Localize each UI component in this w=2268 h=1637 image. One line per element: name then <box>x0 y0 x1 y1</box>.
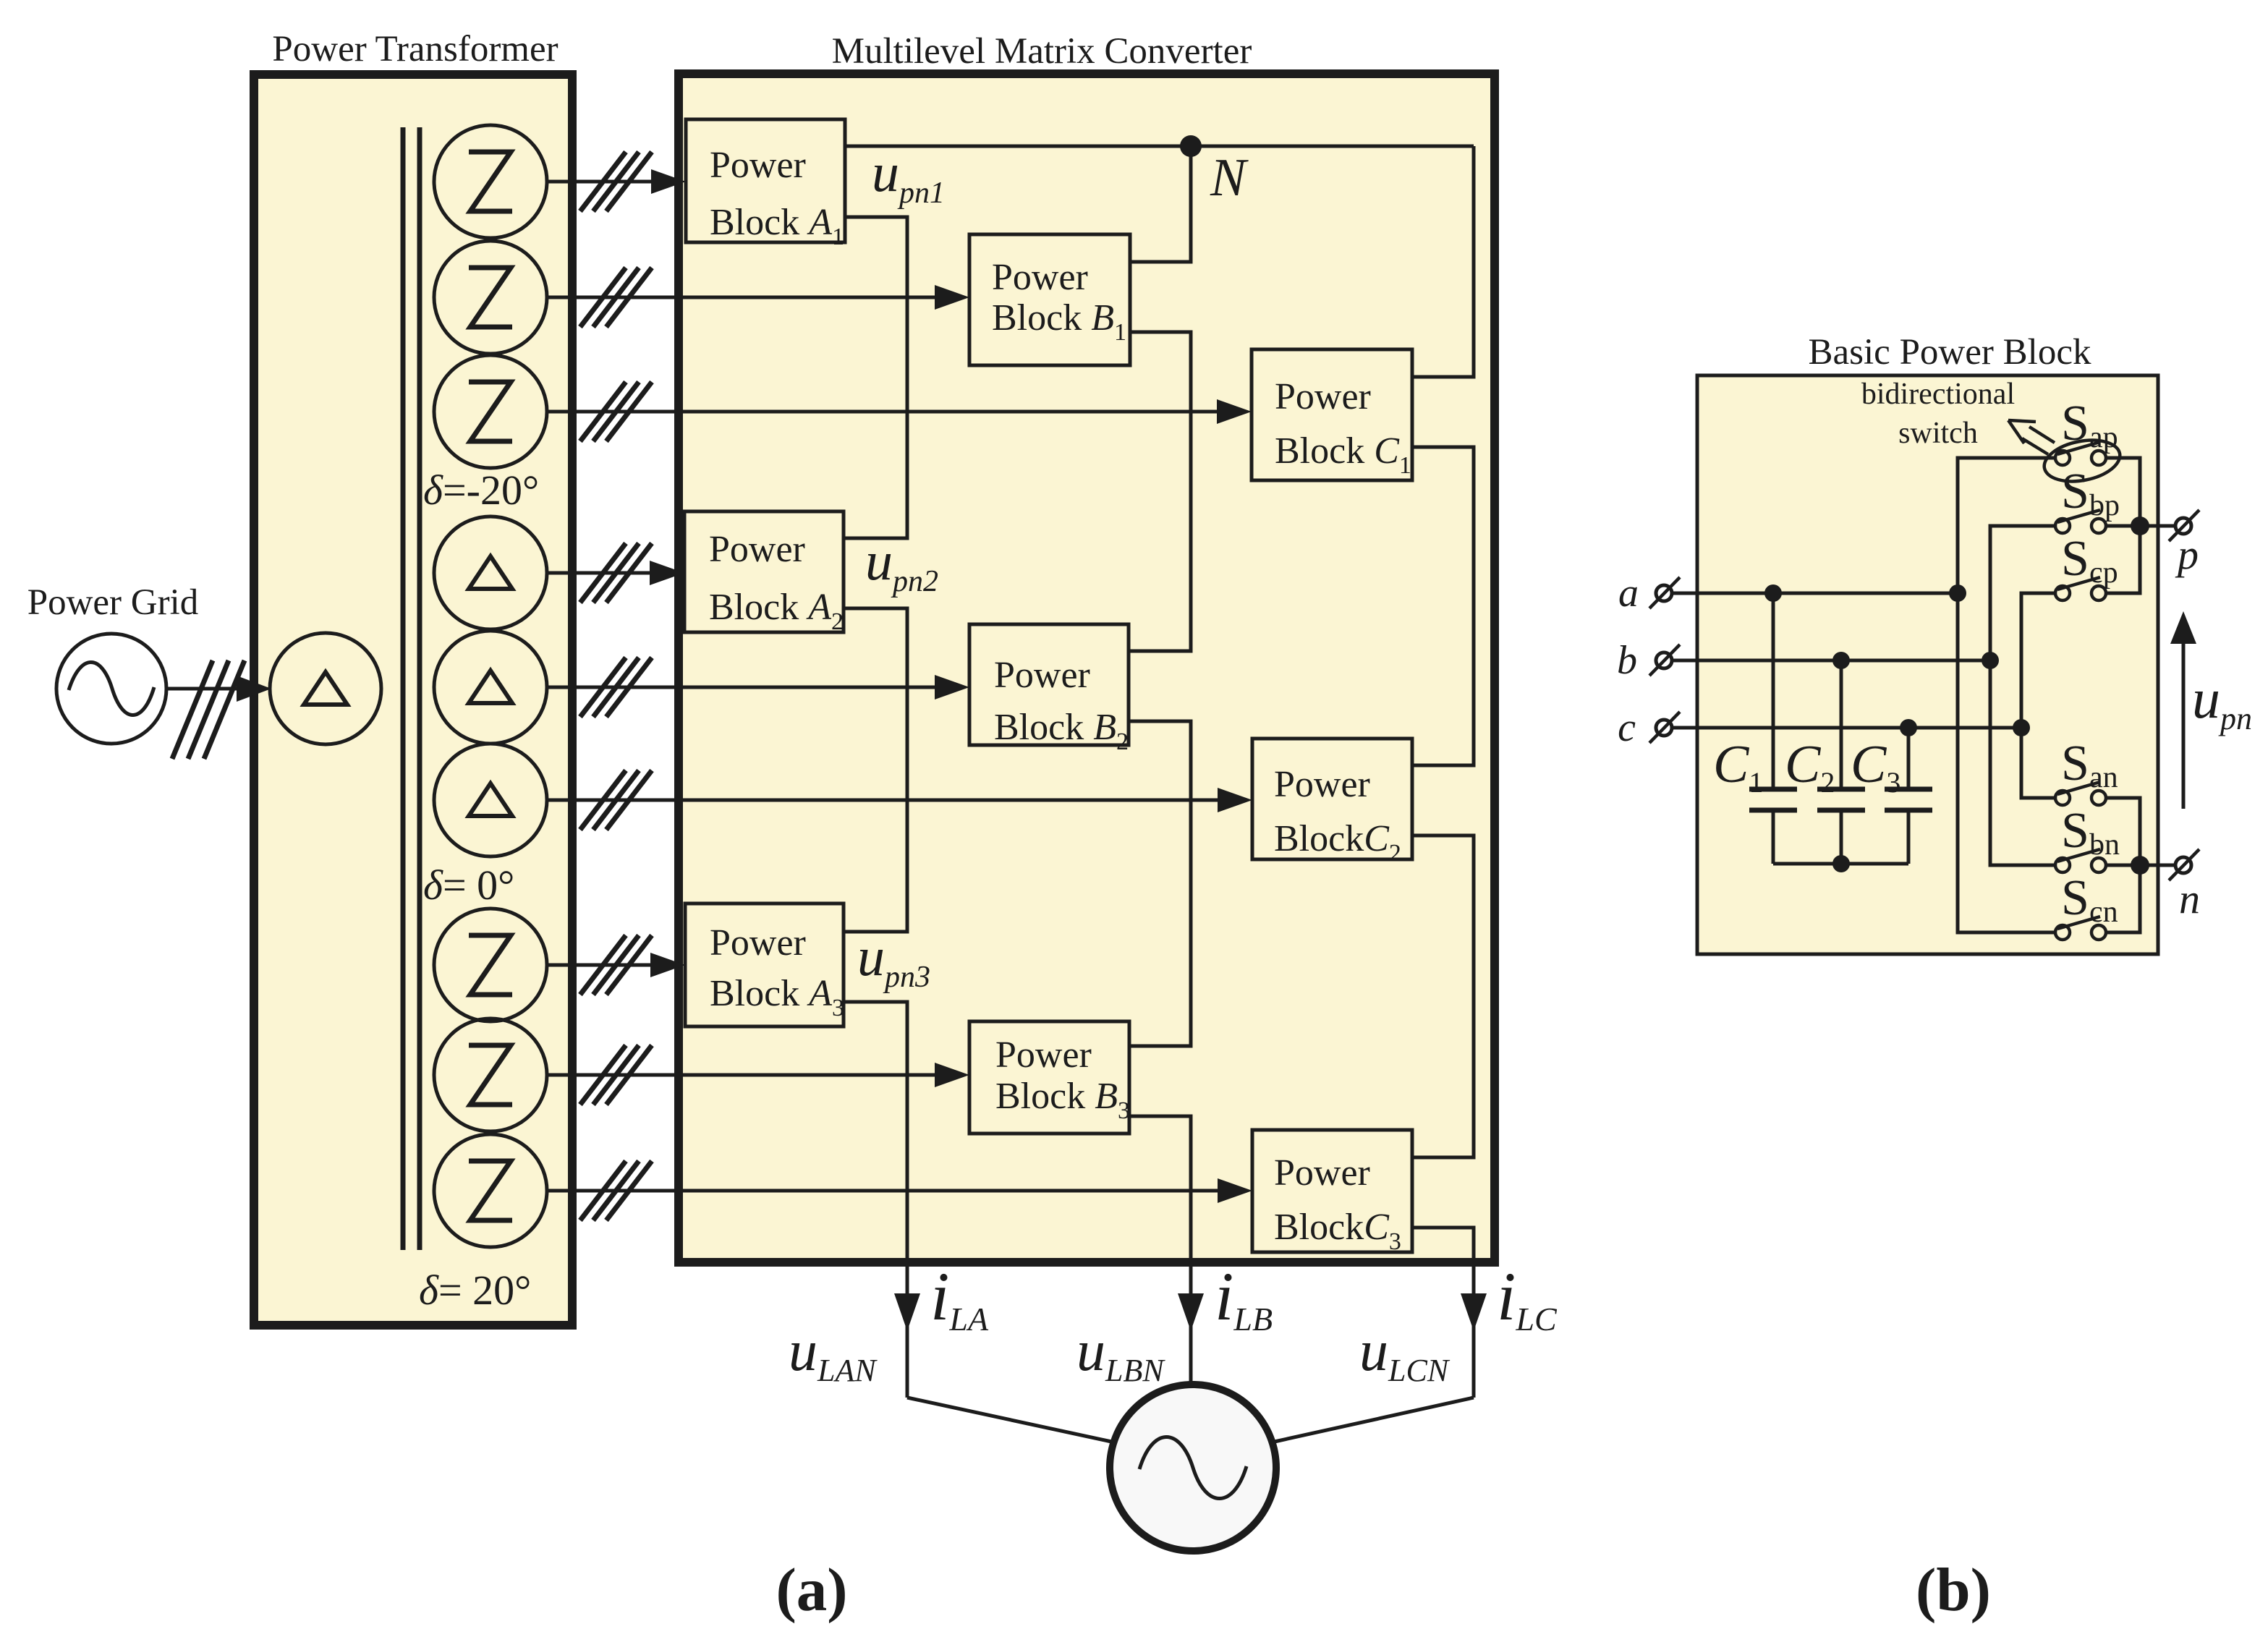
wire b to Sbn <box>1990 660 2055 865</box>
arrow iLA <box>894 1293 920 1331</box>
svg-text:b: b <box>1617 638 1637 683</box>
power block C1 <box>1252 349 1412 480</box>
power block B2 <box>969 624 1129 755</box>
wire c to Scp <box>2021 593 2055 728</box>
wire San to n <box>2106 798 2140 865</box>
svg-text:bidirectional: bidirectional <box>1861 378 2015 411</box>
svg-text:δ=-20°: δ=-20° <box>423 467 539 514</box>
junction a-Sap <box>1949 584 1966 602</box>
svg-text:Power: Power <box>709 529 805 570</box>
wire to load source right <box>1271 1398 1474 1442</box>
secondary winding zigzag 7 <box>434 909 547 1021</box>
junction a-C1 <box>1764 584 1782 602</box>
wire b to Sbp <box>1990 526 2055 660</box>
wire transformer to power block A3 <box>547 935 685 995</box>
svg-text:N: N <box>1210 148 1249 208</box>
svg-text:p: p <box>2175 531 2199 578</box>
svg-text:(b): (b) <box>1916 1556 1991 1624</box>
terminal n <box>2169 849 2199 880</box>
power block A2 <box>684 511 844 635</box>
wire rail A segment 3 <box>844 1002 907 1398</box>
wire rail C segment 3 <box>1412 835 1474 1157</box>
terminal a <box>1649 577 1680 608</box>
hatch grid wire <box>172 660 245 759</box>
wire n out <box>2106 864 2175 867</box>
wire rail A segment 2 <box>844 608 907 932</box>
svg-text:Power Grid: Power Grid <box>27 582 199 623</box>
svg-text:Block B3: Block B3 <box>995 1076 1130 1124</box>
wire transformer to power block C2 <box>547 770 1252 830</box>
primary delta winding <box>270 633 381 744</box>
terminal c <box>1649 712 1680 743</box>
load source <box>1110 1385 1276 1551</box>
svg-text:Power: Power <box>994 655 1090 696</box>
node N <box>1180 135 1202 157</box>
transformer core <box>401 127 406 1250</box>
label bidirectional switch <box>1861 378 2015 450</box>
terminal p <box>2169 510 2199 541</box>
wire phase a <box>1672 592 1958 595</box>
secondary winding delta 5 <box>434 631 547 744</box>
svg-text:Power: Power <box>710 922 806 964</box>
svg-text:Block C1: Block C1 <box>1275 430 1411 479</box>
power block B3 <box>969 1021 1130 1134</box>
wire phase c <box>1672 726 2021 730</box>
wire Scn to n <box>2106 865 2140 932</box>
secondary winding delta 4 <box>434 516 547 629</box>
terminal b <box>1649 645 1680 676</box>
switch Sap <box>2055 442 2106 465</box>
wire rail B segment 1 <box>1130 146 1191 262</box>
wire transformer to power block A2 <box>547 543 684 603</box>
wire transformer to power block C1 <box>547 382 1252 441</box>
svg-text:Power: Power <box>1275 376 1371 417</box>
arrow iLC <box>1461 1293 1487 1331</box>
wire transformer to power block C3 <box>547 1161 1252 1220</box>
wire p out <box>2106 524 2175 528</box>
wire rail B segment 2 <box>1129 332 1191 651</box>
arrow iLB <box>1178 1293 1204 1331</box>
switch San <box>2055 782 2106 805</box>
svg-text:BlockC3: BlockC3 <box>1274 1207 1401 1255</box>
wire rail B segment 3 <box>1129 721 1191 1046</box>
transformer box <box>254 75 572 1325</box>
svg-text:a: a <box>1618 571 1639 616</box>
capacitor C3 <box>1885 728 1932 864</box>
junction capacitor rail <box>1832 855 1850 872</box>
svg-text:Power: Power <box>992 257 1088 298</box>
wire a to Scn <box>1958 593 2055 932</box>
arrow upn <box>2170 611 2196 809</box>
power block A1 <box>686 119 845 250</box>
capacitor C2 <box>1817 660 1865 864</box>
svg-text:Power: Power <box>1274 1152 1370 1194</box>
svg-text:Block A2: Block A2 <box>709 587 844 635</box>
secondary winding delta 6 <box>434 744 547 856</box>
ellipse bidirectional switch <box>2041 434 2123 487</box>
switch Sbp <box>2055 510 2106 533</box>
wire capacitor bottom rail <box>1773 862 1908 866</box>
svg-text:Block B1: Block B1 <box>992 297 1126 346</box>
junction c-C3 <box>1900 719 1917 736</box>
pointer arrow bidirectional switch <box>2008 420 2055 454</box>
wire rail C segment 2 <box>1412 447 1474 765</box>
wire rail C segment 4 <box>1412 1228 1474 1398</box>
switch Scn <box>2055 917 2106 940</box>
svg-text:Block A3: Block A3 <box>710 973 844 1021</box>
wire a to Sap <box>1958 458 2055 593</box>
secondary winding zigzag 8 <box>434 1019 547 1131</box>
svg-text:δ= 20°: δ= 20° <box>419 1267 531 1314</box>
svg-text:switch: switch <box>1898 417 1978 450</box>
junction b-Sb <box>1982 652 1999 669</box>
svg-text:Basic Power Block: Basic Power Block <box>1809 332 2091 373</box>
secondary winding zigzag 9 <box>434 1134 547 1247</box>
switch Sbn <box>2055 849 2106 872</box>
wire transformer to power block B1 <box>547 268 969 327</box>
svg-text:Power: Power <box>710 145 806 186</box>
svg-text:Multilevel Matrix Converter: Multilevel Matrix Converter <box>832 31 1252 72</box>
power block C3 <box>1252 1130 1412 1255</box>
svg-text:Block A1: Block A1 <box>710 202 844 250</box>
power block C2 <box>1252 739 1412 867</box>
power grid source <box>56 634 166 744</box>
svg-text:δ= 0°: δ= 0° <box>423 862 514 909</box>
multilevel matrix converter box <box>679 74 1495 1262</box>
wire to load source left <box>907 1398 1115 1442</box>
junction b-C2 <box>1832 652 1850 669</box>
svg-text:n: n <box>2179 875 2200 922</box>
wire transformer to power block B2 <box>547 658 969 717</box>
wire rail B segment 4 <box>1129 1116 1191 1385</box>
svg-text:BlockC2: BlockC2 <box>1274 818 1401 867</box>
basic power block box <box>1697 375 2158 954</box>
wire transformer to power block A1 <box>547 152 686 211</box>
svg-text:Block B2: Block B2 <box>994 707 1129 755</box>
secondary winding zigzag 3 <box>434 355 547 468</box>
wire rail C segment 1 <box>1412 146 1474 377</box>
junction p <box>2131 516 2149 535</box>
wire rail A segment 1 <box>844 217 907 538</box>
wire phase b <box>1672 659 1990 663</box>
switch Scp <box>2055 577 2106 600</box>
svg-text:(a): (a) <box>776 1556 847 1624</box>
svg-text:c: c <box>1618 705 1636 750</box>
wire N bus top <box>845 145 1474 148</box>
svg-text:Power Transformer: Power Transformer <box>272 29 558 69</box>
svg-text:Power: Power <box>995 1034 1092 1076</box>
power block A3 <box>685 903 844 1026</box>
wire transformer to power block B3 <box>547 1045 969 1105</box>
secondary winding zigzag 2 <box>434 241 547 354</box>
wire Scp to p <box>2106 526 2140 593</box>
power block B1 <box>969 234 1130 365</box>
junction n <box>2131 856 2149 875</box>
wire c to San <box>2021 728 2055 798</box>
svg-text:Power: Power <box>1274 764 1370 805</box>
secondary winding zigzag 1 <box>434 125 547 238</box>
wire Sap to p <box>2106 458 2140 526</box>
wire grid to transformer <box>166 687 246 691</box>
capacitor C1 <box>1749 593 1797 864</box>
junction c-Sc <box>2013 719 2030 736</box>
